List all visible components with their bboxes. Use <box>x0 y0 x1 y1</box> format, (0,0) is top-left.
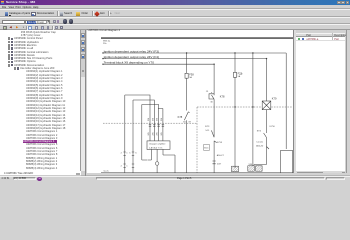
svg-text:F38: F38 <box>189 73 194 77</box>
svg-text:Ignition dependent output rela: Ignition dependent output relay 24V (F3) <box>104 49 159 53</box>
svg-text:C-6 (1): C-6 (1) <box>256 141 263 143</box>
svg-text:A56-X7: A56-X7 <box>217 154 225 157</box>
svg-text:1: 1 <box>126 152 128 154</box>
svg-text:5A: 5A <box>238 75 241 78</box>
svg-text:2: 2 <box>121 152 123 154</box>
svg-text:5: 5 <box>129 152 131 154</box>
svg-text:2/8: 2/8 <box>148 132 150 136</box>
svg-text:Z4/7: Z4/7 <box>217 163 222 165</box>
svg-text:Chopper amplifier: Chopper amplifier <box>149 142 166 145</box>
svg-text:19: 19 <box>206 91 209 93</box>
svg-text:14.1: 14.1 <box>205 130 210 132</box>
svg-text:S7/5: S7/5 <box>257 130 262 132</box>
svg-text:1 A 6 A 4 7 3 5: 1 A 6 A 4 7 3 5 <box>149 146 163 149</box>
svg-text:Terminal block X9 depending on: Terminal block X9 depending on Y70 <box>104 61 155 65</box>
svg-text:A56-X0: A56-X0 <box>256 145 264 148</box>
svg-text:87: 87 <box>189 122 192 124</box>
svg-text:Ignition dependent output rela: Ignition dependent output relay 24V (F4) <box>104 55 159 59</box>
svg-text:B1.5: B1.5 <box>204 147 209 149</box>
svg-text:6: 6 <box>135 152 137 154</box>
svg-text:84: 84 <box>183 122 186 124</box>
svg-text:5/8: 5/8 <box>152 117 154 121</box>
svg-text:2/8: 2/8 <box>152 132 154 136</box>
svg-text:30: 30 <box>210 102 213 104</box>
svg-text:21b: 21b <box>103 43 107 45</box>
svg-text:KY56: KY56 <box>270 126 276 128</box>
svg-text:K79: K79 <box>272 97 277 101</box>
svg-text:5A: 5A <box>189 76 192 79</box>
svg-text:K78: K78 <box>178 115 183 119</box>
svg-text:2: 2 <box>121 165 123 167</box>
svg-text:K78: K78 <box>220 95 225 99</box>
svg-text:+9: +9 <box>240 73 243 75</box>
svg-text:a: a <box>211 92 213 94</box>
svg-text:2/8: 2/8 <box>157 132 159 136</box>
svg-text:5/8: 5/8 <box>148 117 150 121</box>
svg-text:2/8: 2/8 <box>161 132 163 136</box>
svg-text:1: 1 <box>126 165 128 167</box>
svg-text:S7/3: S7/3 <box>205 126 210 128</box>
svg-text:5/8: 5/8 <box>157 117 159 121</box>
svg-text:5/8: 5/8 <box>161 117 163 121</box>
svg-text:KY58: KY58 <box>217 142 223 144</box>
